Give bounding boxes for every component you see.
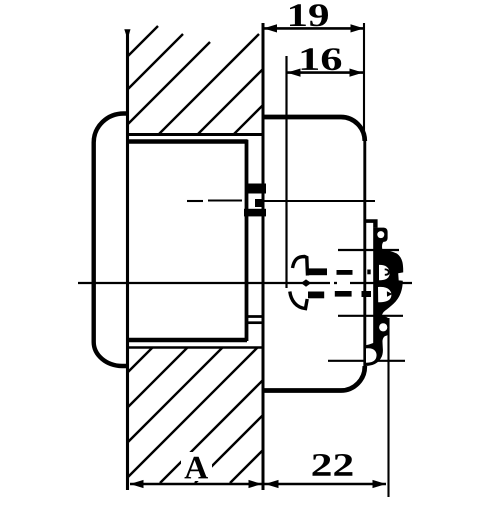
shared dimension line for A and 22 (130, 483, 386, 486)
front flange (bezel) of lock (94, 113, 128, 366)
cam lower lobe white pocket (378, 287, 391, 302)
lock case body through panel (127, 140, 248, 341)
cam upper lobe white pocket (379, 265, 390, 280)
panel wall right face edge (262, 23, 265, 490)
fixing screw section (244, 184, 266, 217)
diamond marker on centerline (301, 279, 311, 286)
extension line left for dimension 16 (285, 56, 287, 288)
rear housing top edge with corner (263, 117, 365, 141)
witness lines through cam (328, 250, 405, 361)
dimension line 16 (287, 71, 364, 74)
arrowhead left of dimension 16 (287, 69, 301, 77)
cam upper pin hole (377, 231, 384, 238)
label 19 (290, 4, 328, 26)
arrowhead right of dimension 19 (351, 24, 365, 32)
step ticks at case lower right (245, 317, 263, 323)
mounting hole bottom edge (127, 346, 262, 349)
cam top cap (366, 219, 378, 228)
cam lower pin hole (379, 323, 387, 331)
label 22 (313, 454, 353, 476)
mounting hole top edge (127, 133, 263, 136)
arrowhead left of dimension 19 (264, 24, 278, 32)
hatching of panel wall, upper section (127, 26, 263, 134)
label A (185, 457, 209, 479)
arrowhead right of dimension 22 (373, 480, 387, 488)
arrowhead left of dimension A (130, 480, 144, 488)
extension line right for dimension 19 (363, 23, 365, 131)
cam upper lobe inner arc (385, 269, 389, 275)
screw axis dashed centerline (187, 199, 375, 202)
rear housing right face edge (363, 140, 366, 366)
hatching of panel wall, lower section (127, 348, 263, 484)
keyway hidden dashes upper row (308, 268, 371, 275)
plug front arc lower fin (290, 292, 307, 309)
main horizontal centerline axis (78, 282, 412, 284)
cam foot white pocket (366, 348, 377, 362)
arrowhead right of dimension 16 (350, 69, 364, 77)
rear housing bottom edge with corner (263, 366, 365, 391)
cam lower lobe tongue (387, 291, 393, 297)
cam profile body (366, 228, 404, 366)
arrowhead left of dimension 22 (265, 480, 279, 488)
dimension line 19 (263, 27, 364, 30)
label 16 (302, 48, 342, 70)
extension line right for dimension 22 (387, 318, 389, 497)
keyway hidden dashes lower row (308, 291, 371, 298)
arrowhead right of dimension A (249, 480, 263, 488)
plug front arc upper fin (293, 257, 308, 276)
panel wall left face edge (124, 29, 130, 490)
white halo behind label A (181, 452, 212, 481)
